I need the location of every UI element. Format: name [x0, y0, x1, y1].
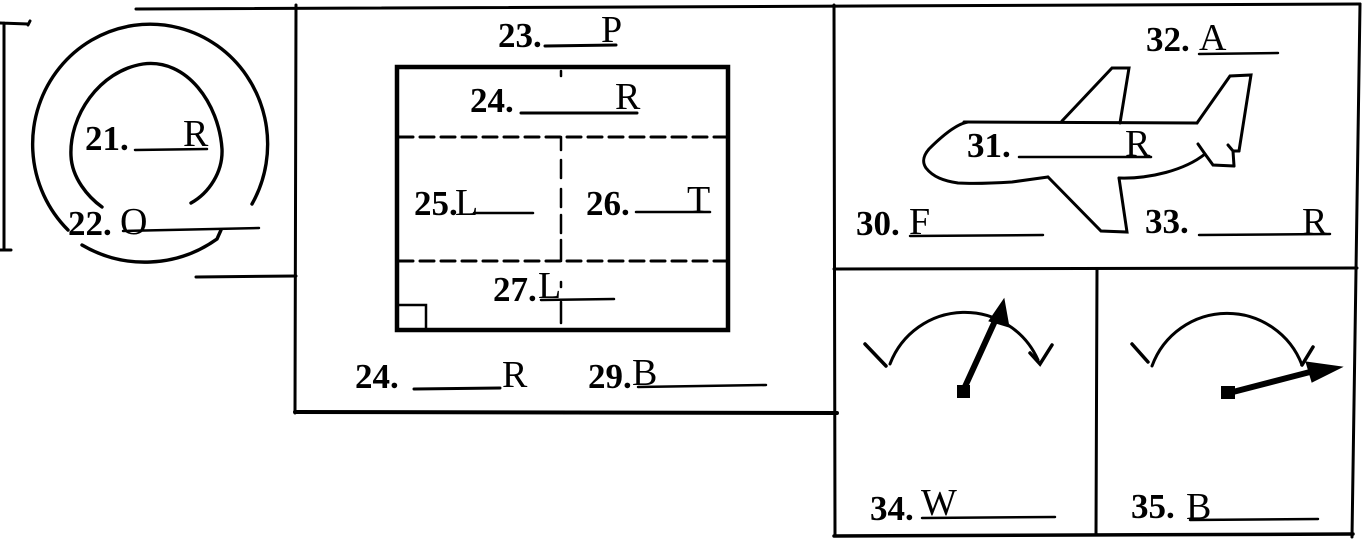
airplane nose and belly	[924, 122, 1048, 183]
dashed vertical line	[560, 71, 563, 323]
underline 31	[1019, 156, 1151, 159]
svg-text:33.: 33.	[1145, 202, 1189, 241]
gauge 34 needle arrowhead	[989, 299, 1009, 327]
svg-text:22.: 22.	[68, 204, 112, 243]
underline 24	[521, 112, 637, 115]
underline 27	[541, 299, 614, 300]
svg-text:32.: 32.	[1146, 20, 1190, 59]
svg-text:30.: 30.	[856, 204, 900, 243]
airplane tail fin	[1197, 75, 1251, 151]
airplane rear stabilizer	[1198, 144, 1234, 166]
svg-text:T: T	[687, 179, 710, 221]
underline 25	[474, 212, 533, 215]
svg-text:B: B	[632, 352, 657, 394]
gauge 34 left tick	[865, 344, 886, 366]
dashed horizontal line lower	[399, 260, 727, 263]
svg-text:21.: 21.	[85, 119, 129, 158]
svg-text:W: W	[921, 482, 957, 524]
underline 23	[545, 45, 616, 46]
underline 22	[123, 228, 259, 231]
svg-text:L: L	[455, 182, 478, 224]
underline 32	[1199, 53, 1278, 54]
underline 26	[636, 211, 710, 214]
airplane fuselage top	[964, 122, 1197, 123]
gauge 35 arc	[1152, 313, 1302, 366]
stray line under circles	[196, 276, 296, 277]
underline 29	[638, 385, 766, 387]
bottom border of boxes 34/35	[834, 534, 1353, 536]
shared vertical border x834	[834, 5, 835, 536]
airplane box bottom border	[834, 268, 1357, 269]
top border line	[136, 4, 1360, 9]
svg-text:27.: 27.	[493, 270, 537, 309]
gauge 35 needle arrowhead	[1306, 362, 1342, 382]
svg-text:R: R	[1302, 201, 1328, 243]
svg-text:26.: 26.	[586, 184, 630, 223]
divider between box 34 and 35	[1096, 269, 1097, 535]
svg-text:29.: 29.	[588, 357, 632, 396]
svg-text:24.: 24.	[470, 81, 514, 120]
svg-text:O: O	[120, 201, 147, 243]
middle box left border	[295, 5, 296, 413]
svg-text:34.: 34.	[870, 489, 914, 528]
svg-text:A: A	[1199, 17, 1227, 59]
airplane far wing	[1062, 68, 1129, 123]
left bracket border fragment	[0, 21, 30, 250]
svg-text:F: F	[909, 201, 930, 243]
underline 21	[135, 149, 207, 150]
inner rectangle	[397, 67, 728, 330]
gauge 35 needle	[1229, 372, 1310, 393]
svg-text:35.: 35.	[1131, 487, 1175, 526]
gauge 34 arc	[890, 312, 1038, 364]
svg-text:25.: 25.	[414, 184, 458, 223]
underline 24b	[414, 388, 500, 389]
outer circle	[33, 24, 268, 230]
underline 34	[922, 517, 1055, 518]
gauge 35 needle base square	[1221, 386, 1235, 399]
svg-text:R: R	[1125, 123, 1151, 165]
airplane near wing	[1048, 177, 1127, 232]
svg-text:B: B	[1186, 486, 1211, 528]
svg-text:P: P	[601, 9, 622, 51]
svg-text:L: L	[538, 265, 561, 307]
corner right-angle square	[399, 305, 426, 329]
gauge 34 needle	[963, 310, 1000, 391]
svg-text:24.: 24.	[355, 357, 399, 396]
svg-text:R: R	[502, 354, 528, 396]
svg-text:R: R	[183, 113, 209, 155]
underline 35	[1190, 519, 1318, 520]
right border	[1352, 4, 1360, 537]
airplane elevator notch	[1228, 145, 1239, 166]
airplane rear belly curve	[1119, 154, 1205, 178]
outer circle bottom stroke	[82, 230, 221, 262]
dashed horizontal line upper	[399, 136, 727, 139]
gauge 34 right tick	[1030, 345, 1052, 364]
middle box bottom border	[295, 412, 837, 413]
inner circle	[71, 63, 222, 207]
gauge 35 right tick	[1302, 347, 1313, 365]
underline 33	[1199, 234, 1330, 235]
svg-text:23.: 23.	[498, 16, 542, 55]
gauge 35 left tick	[1132, 344, 1148, 362]
gauge 34 needle base square	[957, 385, 970, 398]
underline 30	[910, 235, 1043, 236]
svg-text:R: R	[615, 76, 641, 118]
svg-text:31.: 31.	[967, 126, 1011, 165]
